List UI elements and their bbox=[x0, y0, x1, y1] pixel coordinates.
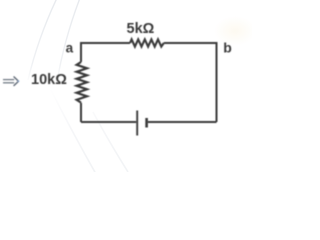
implies arrow: head chevron bbox=[14, 77, 19, 86]
watermark arc upper-left 2 bbox=[57, 0, 80, 82]
resistor R2 10kOhm (left, vertical zigzag) bbox=[77, 62, 87, 103]
wire: top-left segment a to resistor bbox=[81, 42, 130, 44]
watermark arc lower-left 1 bbox=[50, 88, 96, 174]
implies arrow: upper bar bbox=[3, 79, 14, 81]
svg-text:a: a bbox=[66, 41, 74, 56]
wire: right side b down to bottom-right corner bbox=[216, 42, 218, 122]
watermark blob top-right bbox=[214, 16, 256, 46]
implies arrow: blue tip artifact bbox=[18, 80, 20, 82]
svg-text:5kΩ: 5kΩ bbox=[127, 21, 155, 37]
wire: left side top (a down to resistor) bbox=[80, 42, 82, 62]
resistor R1 5kOhm (top, horizontal zigzag) bbox=[130, 39, 164, 46]
watermark arc upper-left 1 bbox=[28, 0, 57, 80]
implies arrow: lower bar bbox=[3, 82, 14, 84]
svg-text:10kΩ: 10kΩ bbox=[31, 72, 67, 88]
watermark arc lower-left 2 bbox=[93, 112, 128, 172]
battery B1 short plate (negative) bbox=[145, 118, 148, 128]
wire: left side bottom (resistor down to corner) bbox=[80, 103, 82, 122]
wire: bottom-right segment battery to corner bbox=[148, 121, 217, 123]
wire: top-right segment resistor to b bbox=[164, 42, 217, 44]
battery B1 long plate (positive) bbox=[136, 111, 138, 136]
wire: bottom-left segment to battery bbox=[81, 121, 136, 123]
svg-text:b: b bbox=[223, 40, 232, 56]
